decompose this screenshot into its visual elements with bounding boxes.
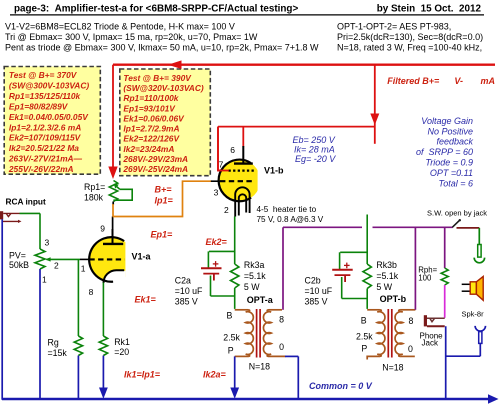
svg-text:Rp1=110/100k: Rp1=110/100k [123, 93, 178, 103]
svg-text:S.W. open by jack: S.W. open by jack [427, 209, 487, 218]
svg-text:255V/-26V/22mA: 255V/-26V/22mA [8, 164, 74, 174]
svg-text:Ip1=2.1/2.3/2.6 mA: Ip1=2.1/2.3/2.6 mA [9, 122, 81, 132]
svg-text:Eg= -20 V: Eg= -20 V [295, 154, 336, 164]
svg-text:0: 0 [279, 342, 284, 352]
svg-text:Ek1=0.04/0.05/0.05V: Ek1=0.04/0.05/0.05V [9, 112, 89, 122]
svg-text:N=18, rated 3 W, Freq =100-40: N=18, rated 3 W, Freq =100-40 kHz, [337, 43, 482, 53]
svg-text:(SW@320V-103VAC): (SW@320V-103VAC) [123, 83, 204, 93]
svg-text:C2b: C2b [305, 275, 321, 285]
svg-text:=10 uF: =10 uF [175, 286, 203, 296]
svg-text:0: 0 [408, 344, 413, 354]
svg-text:Test @ B+= 390V: Test @ B+= 390V [123, 73, 192, 83]
svg-text:3: 3 [45, 238, 50, 248]
svg-text:Rk3a: Rk3a [244, 260, 265, 270]
svg-text:2.5k: 2.5k [356, 332, 373, 342]
svg-text:P: P [361, 344, 367, 354]
svg-text:Jack: Jack [422, 338, 439, 347]
svg-text:Ek2=107/109/115V: Ek2=107/109/115V [9, 133, 82, 143]
svg-text:268V/-29V/23mA: 268V/-29V/23mA [122, 154, 188, 164]
svg-text:Ek2=122/126V: Ek2=122/126V [123, 134, 180, 144]
svg-text:180k: 180k [84, 193, 104, 203]
svg-text:Rp1=135/125/110k: Rp1=135/125/110k [9, 91, 81, 101]
svg-text:263V/-27V/21mA—: 263V/-27V/21mA— [8, 154, 83, 164]
svg-text:Ik1=Ip1=: Ik1=Ip1= [124, 370, 161, 380]
svg-text:Voltage Gain: Voltage Gain [421, 116, 473, 126]
svg-text:OPT-b: OPT-b [380, 294, 407, 304]
svg-text:by Stein 15 Oct. 2012: by Stein 15 Oct. 2012 [377, 3, 482, 14]
svg-text:=5.1k: =5.1k [376, 271, 398, 281]
svg-text:OPT-1-OPT-2= AES PT-983,: OPT-1-OPT-2= AES PT-983, [337, 22, 451, 32]
svg-text:385 V: 385 V [305, 297, 328, 307]
svg-text:75 V, 0.8 A@6.3 V: 75 V, 0.8 A@6.3 V [257, 215, 324, 224]
svg-text:N=18: N=18 [249, 362, 270, 372]
svg-text:5 W: 5 W [244, 282, 260, 292]
svg-text:Eb= 250 V: Eb= 250 V [293, 135, 336, 145]
svg-text:Filtered B+= V- mA: Filtered B+= V- mA [387, 76, 495, 86]
svg-text:2: 2 [224, 205, 229, 215]
svg-text:Ep1=93/101V: Ep1=93/101V [123, 103, 176, 113]
svg-text:V1-a: V1-a [132, 252, 152, 262]
svg-text:B: B [227, 311, 233, 321]
svg-text:Triode = 0.9: Triode = 0.9 [425, 158, 473, 168]
svg-text:Tri @ Ebmax= 300 V, Ipmax= 15: Tri @ Ebmax= 300 V, Ipmax= 15 ma, rp=20k… [5, 32, 258, 42]
svg-text:No Positive: No Positive [427, 126, 473, 136]
svg-text:V1-b: V1-b [264, 166, 284, 176]
svg-text:Rk1: Rk1 [114, 337, 130, 347]
svg-text:1: 1 [81, 264, 86, 274]
svg-text:Ip1=2.7/2.9mA: Ip1=2.7/2.9mA [123, 124, 179, 134]
svg-text:4-5 heater tie to: 4-5 heater tie to [257, 205, 317, 214]
svg-text:=10 uF: =10 uF [305, 286, 333, 296]
svg-text:Pent as triode @ Ebmax= 300 V,: Pent as triode @ Ebmax= 300 V, Ikmax= 50… [5, 43, 319, 53]
svg-text:Rg: Rg [48, 337, 59, 347]
svg-text:Rp1=: Rp1= [84, 182, 105, 192]
svg-text:Ep1=: Ep1= [151, 230, 174, 240]
svg-text:=20: =20 [114, 347, 129, 357]
svg-text:(SW@300V-103VAC): (SW@300V-103VAC) [9, 81, 90, 91]
svg-text:Rk3b: Rk3b [376, 260, 397, 270]
svg-text:Ip1=: Ip1= [155, 196, 174, 206]
svg-text:=15k: =15k [48, 348, 68, 358]
svg-text:C2a: C2a [175, 275, 191, 285]
svg-text:Ep1=80/82/89V: Ep1=80/82/89V [9, 101, 69, 111]
svg-text:Test @ B+= 370V: Test @ B+= 370V [9, 70, 78, 80]
svg-text:Ik2=23/24mA: Ik2=23/24mA [123, 144, 174, 154]
svg-text:Common = 0 V: Common = 0 V [309, 381, 373, 391]
svg-text:269V/-25V/24mA: 269V/-25V/24mA [122, 164, 188, 174]
svg-text:Total = 6: Total = 6 [439, 179, 473, 189]
svg-text:OPT-a: OPT-a [247, 295, 274, 305]
svg-text:V1-V2=6BM8=ECL82 Triode & Pent: V1-V2=6BM8=ECL82 Triode & Pentode, H-K m… [5, 22, 235, 32]
svg-text:page-3: Amplifier-test-a for: page-3: Amplifier-test-a for <6BM8-SRPP-… [14, 4, 298, 15]
svg-text:Ek2=: Ek2= [206, 237, 228, 247]
svg-text:1: 1 [42, 274, 47, 284]
svg-text:Ek1=: Ek1= [135, 295, 157, 305]
svg-text:RCA input: RCA input [6, 197, 46, 207]
svg-text:Spk-8r: Spk-8r [462, 310, 485, 319]
svg-text:3: 3 [214, 187, 219, 197]
svg-text:Ek1=0.06/0.06V: Ek1=0.06/0.06V [123, 113, 185, 123]
svg-text:8: 8 [279, 315, 284, 325]
svg-text:Ik2a=: Ik2a= [203, 370, 227, 380]
svg-text:7: 7 [219, 159, 224, 169]
svg-text:Pri=2.5k(dcR=130), Sec=8(dcR=0: Pri=2.5k(dcR=130), Sec=8(dcR=0.0) [337, 32, 483, 42]
svg-text:6: 6 [230, 145, 235, 155]
svg-text:Ik2=20.5/21/22 Ma: Ik2=20.5/21/22 Ma [9, 143, 79, 153]
svg-text:Ik= 28 mA: Ik= 28 mA [294, 145, 335, 155]
svg-text:9: 9 [100, 224, 105, 234]
svg-text:5 W: 5 W [376, 282, 392, 292]
svg-text:385 V: 385 V [175, 297, 198, 307]
svg-text:feedback: feedback [436, 137, 473, 147]
svg-text:N=18: N=18 [382, 363, 403, 373]
svg-text:P: P [228, 346, 234, 356]
svg-text:8: 8 [89, 287, 94, 297]
svg-text:50kB: 50kB [9, 260, 29, 270]
svg-text:2.5k: 2.5k [223, 333, 240, 343]
svg-text:OPT =0.11: OPT =0.11 [430, 168, 473, 178]
svg-text:B: B [361, 316, 367, 326]
svg-text:100: 100 [418, 274, 432, 283]
svg-text:=5.1k: =5.1k [244, 271, 266, 281]
svg-text:8: 8 [409, 316, 414, 326]
svg-text:of SRPP = 60: of SRPP = 60 [416, 147, 473, 157]
svg-text:B+=: B+= [155, 185, 173, 195]
svg-text:2: 2 [54, 260, 59, 270]
